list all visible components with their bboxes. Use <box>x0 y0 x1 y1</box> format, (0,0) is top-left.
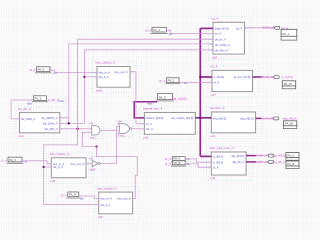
wire G1 out to G2 lower input <box>100 129 119 131</box>
svg-text:trey_clanko_4: trey_clanko_4 <box>96 61 116 65</box>
wire U3 seg_4 bus label to buffer <box>261 117 273 119</box>
input pad PA_4 (t0_4) top <box>151 27 168 33</box>
AND gate G1 <box>88 123 103 139</box>
svg-text:rst5: rst5 <box>210 176 215 180</box>
svg-text:PA_1: PA_1 <box>283 32 290 36</box>
output buffer U1 tej_4 out <box>275 26 280 29</box>
svg-text:key_out_4: key_out_4 <box>117 197 131 201</box>
svg-text:trl_4: trl_4 <box>146 122 152 126</box>
net label t4c <box>186 157 197 161</box>
svg-text:rst9: rst9 <box>98 215 103 219</box>
svg-text:clk_4Hz_4: clk_4Hz_4 <box>215 48 229 52</box>
junction bus/U2 <box>199 76 201 78</box>
svg-text:c10c: c10c <box>59 99 66 103</box>
svg-text:t1c: t1c <box>24 159 28 163</box>
svg-text:trl_out_4[7:0]: trl_out_4[7:0] <box>234 75 251 79</box>
svg-text:t9_4: t9_4 <box>159 79 165 83</box>
junction x77.6 <box>77 128 79 130</box>
svg-text:inst2: inst2 <box>118 134 124 138</box>
wire pad to U7 key_in <box>50 70 97 72</box>
svg-text:PA_9: PA_9 <box>9 158 16 162</box>
wire pad to U4 t3_4 <box>185 164 211 167</box>
input pad PA_9 (t1_4) bottom left <box>7 157 24 163</box>
svg-text:alg_4[3:0]: alg_4[3:0] <box>231 154 244 158</box>
svg-text:clk_100U_4: clk_100U_4 <box>215 43 230 47</box>
svg-text:seq_4[3:0]: seq_4[3:0] <box>213 117 226 121</box>
wire pad to U2 trl_4 <box>179 81 212 83</box>
bus branch to U4 a_4 <box>200 155 211 157</box>
svg-text:clk_4Hz_4: clk_4Hz_4 <box>44 127 58 131</box>
svg-text:PA_N: PA_N <box>69 193 76 197</box>
svg-text:set_output_4[3:0]: set_output_4[3:0] <box>171 116 193 120</box>
svg-text:tej_4: tej_4 <box>212 17 219 21</box>
svg-text:PA_07: PA_07 <box>284 82 293 86</box>
wire G2 out to U5 clk_4 <box>131 128 144 130</box>
wire U7 key_out down to U5 trl_4 <box>130 72 144 124</box>
output pad PA_06 <box>283 121 296 129</box>
svg-text:trey_clanko_4: trey_clanko_4 <box>50 152 70 156</box>
svg-text:rst7: rst7 <box>211 93 216 97</box>
wire U4 alg_4 bus label to buffer <box>256 155 268 157</box>
input pad PA_E (t2_4) <box>171 161 187 166</box>
svg-text:alg_d5_4: alg_d5_4 <box>232 160 244 164</box>
junction trey2 clk tap <box>43 166 45 168</box>
svg-text:key_out_4: key_out_4 <box>71 162 85 166</box>
net label t2c <box>186 162 197 166</box>
svg-text:alg_d5_4: alg_d5_4 <box>273 160 285 164</box>
module block U5 signal_asy_4 (center) <box>140 107 202 140</box>
svg-text:add_odd_even_4: add_odd_even_4 <box>210 146 234 150</box>
svg-text:tr_4[3:0]: tr_4[3:0] <box>214 75 225 79</box>
svg-text:clk_10Hz_4: clk_10Hz_4 <box>43 122 58 126</box>
svg-text:t3_4: t3_4 <box>61 193 67 197</box>
wire U3 seg_4 bus to net label <box>256 117 262 119</box>
svg-text:PA_4: PA_4 <box>153 28 160 32</box>
svg-text:rst0: rst0 <box>50 179 55 183</box>
svg-text:XLXN_29: XLXN_29 <box>256 160 268 164</box>
module block U1 tej_4 (top right) <box>209 17 251 60</box>
input pad PA_0b (t4_4) <box>171 157 187 162</box>
wire pad to U8 key_in <box>22 161 51 164</box>
svg-text:cl4: cl4 <box>118 119 122 123</box>
svg-text:swt_4(3:0): swt_4(3:0) <box>172 97 187 101</box>
svg-text:tst_4: tst_4 <box>215 32 222 36</box>
svg-text:rst6: rst6 <box>143 136 148 140</box>
svg-text:PA_A: PA_A <box>287 153 294 157</box>
net clk4 vertical x77.6 to U1 clk_hz and down to trey clocks <box>44 39 213 204</box>
svg-text:PA_0: PA_0 <box>38 68 45 72</box>
svg-text:clk_50M_4: clk_50M_4 <box>21 117 35 121</box>
svg-text:seg_4[6:0]: seg_4[6:0] <box>240 117 253 121</box>
junction bus/U3 <box>199 117 201 119</box>
wire branch to U7 clk_4_4 <box>84 76 97 78</box>
svg-text:key_out_4: key_out_4 <box>115 70 129 74</box>
svg-text:PA_06: PA_06 <box>285 122 294 126</box>
wire U9 key_out up via staircase to G1 <box>97 147 138 199</box>
junction trey1 clk tap <box>83 76 85 78</box>
svg-text:decoder_4: decoder_4 <box>210 106 225 110</box>
module block U8 trey_clanko_4 instance 2 (bottom left) <box>47 152 93 183</box>
svg-text:trey_clanko_4: trey_clanko_4 <box>97 186 117 190</box>
junction clk100/clk10 x68.8 <box>68 122 70 124</box>
svg-text:t3_4: t3_4 <box>213 165 219 169</box>
output pad PA_07 <box>282 81 295 89</box>
svg-text:rl2_4: rl2_4 <box>211 65 218 69</box>
svg-text:PA_D: PA_D <box>159 96 166 100</box>
NOR gate G2 <box>117 120 133 137</box>
svg-text:b_4[3:0]: b_4[3:0] <box>213 160 223 164</box>
wire U4 alg_4 bus to net label <box>246 155 256 157</box>
svg-text:XLXN_29: XLXN_29 <box>256 154 268 158</box>
svg-text:t0_4: t0_4 <box>29 68 35 72</box>
inverter V1 after U8 <box>89 157 104 171</box>
svg-text:fre_div_4: fre_div_4 <box>18 107 31 111</box>
wire branch to U8 clk_4_4 <box>44 166 52 168</box>
module block U3 decoder_4 (right, third) <box>207 106 262 138</box>
svg-text:clk_4_4: clk_4_4 <box>100 203 110 207</box>
output pad PA_1 <box>281 29 297 40</box>
svg-text:rst8: rst8 <box>212 55 217 59</box>
svg-text:tej_4: tej_4 <box>236 27 243 31</box>
svg-text:a_4[3:0]: a_4[3:0] <box>213 155 223 159</box>
input pad PA_N (t3_4) bottom middle <box>66 192 80 198</box>
wire U8 key_out to inverter <box>86 163 92 165</box>
svg-text:rst2: rst2 <box>19 134 24 138</box>
wire pad to U4 b_4 <box>185 159 211 162</box>
svg-text:PA_E: PA_E <box>174 161 181 165</box>
svg-text:data_4[3:0]: data_4[3:0] <box>215 27 229 31</box>
wire pad left down to U6 clk_50M <box>11 100 33 119</box>
bus branch to U2 tr_4 <box>200 76 212 78</box>
wire U2 trl_out bus label to buffer <box>262 76 274 78</box>
output buffer U4 alg_d5 bus <box>268 160 273 163</box>
net label c10c mid-wire <box>58 98 67 103</box>
wire U1 tej_4 out to output buffer <box>244 27 274 29</box>
input pad PA_0 (t0_4) top left <box>35 67 52 73</box>
input pad PA_D (swt_4) <box>156 93 174 101</box>
wire U6 clk_4Hz out to gate G1 upper input <box>60 128 92 130</box>
svg-text:t4_4: t4_4 <box>165 157 171 161</box>
bus branch to U1 data_4 <box>200 27 213 29</box>
svg-text:clk_4_4: clk_4_4 <box>53 165 63 169</box>
svg-text:trl_4: trl_4 <box>214 81 220 85</box>
input pad PA_3 (a_t0d_4) clock 50M <box>32 96 48 102</box>
wire U6 clk_100Hz out <box>60 117 69 119</box>
bus from U5 set_output_4 to U3 seq_4 <box>195 117 211 119</box>
wire staircase G1 lower input feedback <box>82 132 96 146</box>
net clk10 vertical x84.4 up to U1 clk_4Hz <box>84 50 213 124</box>
module block U2 rl2_4 (right, second) <box>208 65 260 98</box>
svg-text:tr_4(7:0): tr_4(7:0) <box>282 75 293 79</box>
svg-text:XLXN_29: XLXN_29 <box>262 26 274 30</box>
wire pad to U9 key_in <box>79 196 99 199</box>
svg-text:clk_hz_4: clk_hz_4 <box>215 38 227 42</box>
svg-text:a_t0d_4: a_t0d_4 <box>48 98 59 102</box>
wire pad left down to U5 Switch_4 (bus) <box>134 102 157 118</box>
wire U2 trl_out bus to net label <box>253 76 262 78</box>
svg-text:Switch_4[3:0]: Switch_4[3:0] <box>146 116 163 120</box>
output pad PA_B <box>286 161 299 169</box>
wire U6 clk_10Hz out <box>60 122 85 124</box>
output buffer U4 alg_4 bus <box>268 154 273 157</box>
svg-text:xl4: xl4 <box>89 122 93 126</box>
net clk100 vertical x68.8 up to U1 clk_100U <box>69 44 213 124</box>
svg-text:PA_5: PA_5 <box>168 79 175 83</box>
svg-text:XLXN_29: XLXN_29 <box>262 75 274 79</box>
svg-text:t1_4: t1_4 <box>1 158 7 162</box>
svg-text:clk_4: clk_4 <box>146 127 153 131</box>
wire U4 alg_d5 bus to net label <box>246 161 256 163</box>
module block U4 add_odd_even_4 (bottom right) <box>207 146 253 180</box>
bus seq_4[3:0] vertical trunk <box>199 28 201 156</box>
module block U6 fre_div_4 (left) <box>15 107 66 139</box>
module block U7 trey_clanko_4 instance 1 (top middle) <box>93 61 137 93</box>
svg-text:XLXN_29: XLXN_29 <box>261 116 273 120</box>
output buffer U2 trl_out bus <box>274 76 279 79</box>
wire inverter out up to G2 upper input <box>100 126 118 163</box>
svg-text:t0_4: t0_4 <box>145 29 151 33</box>
svg-text:PA_3: PA_3 <box>35 97 42 101</box>
svg-text:t3c: t3c <box>80 196 84 200</box>
svg-text:t0dc: t0dc <box>27 102 33 106</box>
svg-text:key_in_4: key_in_4 <box>100 197 112 201</box>
output buffer U3 seg_4 bus <box>274 117 279 120</box>
svg-text:orignal_asy_4: orignal_asy_4 <box>143 107 163 111</box>
svg-text:t2_4: t2_4 <box>165 162 171 166</box>
output pad PA_A <box>286 153 299 161</box>
svg-text:PA_B: PA_B <box>287 162 294 166</box>
junction staircase <box>96 146 98 148</box>
wire pad to U1 tst_4 <box>166 30 213 33</box>
svg-text:clk_100Hz_4: clk_100Hz_4 <box>41 116 58 120</box>
svg-text:rst01: rst01 <box>96 88 103 92</box>
input pad PA_5 (t9_4) <box>165 78 181 84</box>
svg-text:rst3: rst3 <box>210 134 215 138</box>
svg-text:inst1: inst1 <box>90 136 96 140</box>
svg-text:clk_4_4: clk_4_4 <box>99 75 109 79</box>
wire U4 alg_d5 bus label to buffer <box>256 161 268 163</box>
svg-text:inl04: inl04 <box>89 167 95 171</box>
module block U9 trey_clanko_4 instance 3 (bottom middle) <box>94 186 139 219</box>
svg-text:alg_4(3:0): alg_4(3:0) <box>273 154 286 158</box>
svg-text:kl2: kl2 <box>89 156 93 160</box>
svg-text:seg_4(6:0): seg_4(6:0) <box>283 116 297 120</box>
